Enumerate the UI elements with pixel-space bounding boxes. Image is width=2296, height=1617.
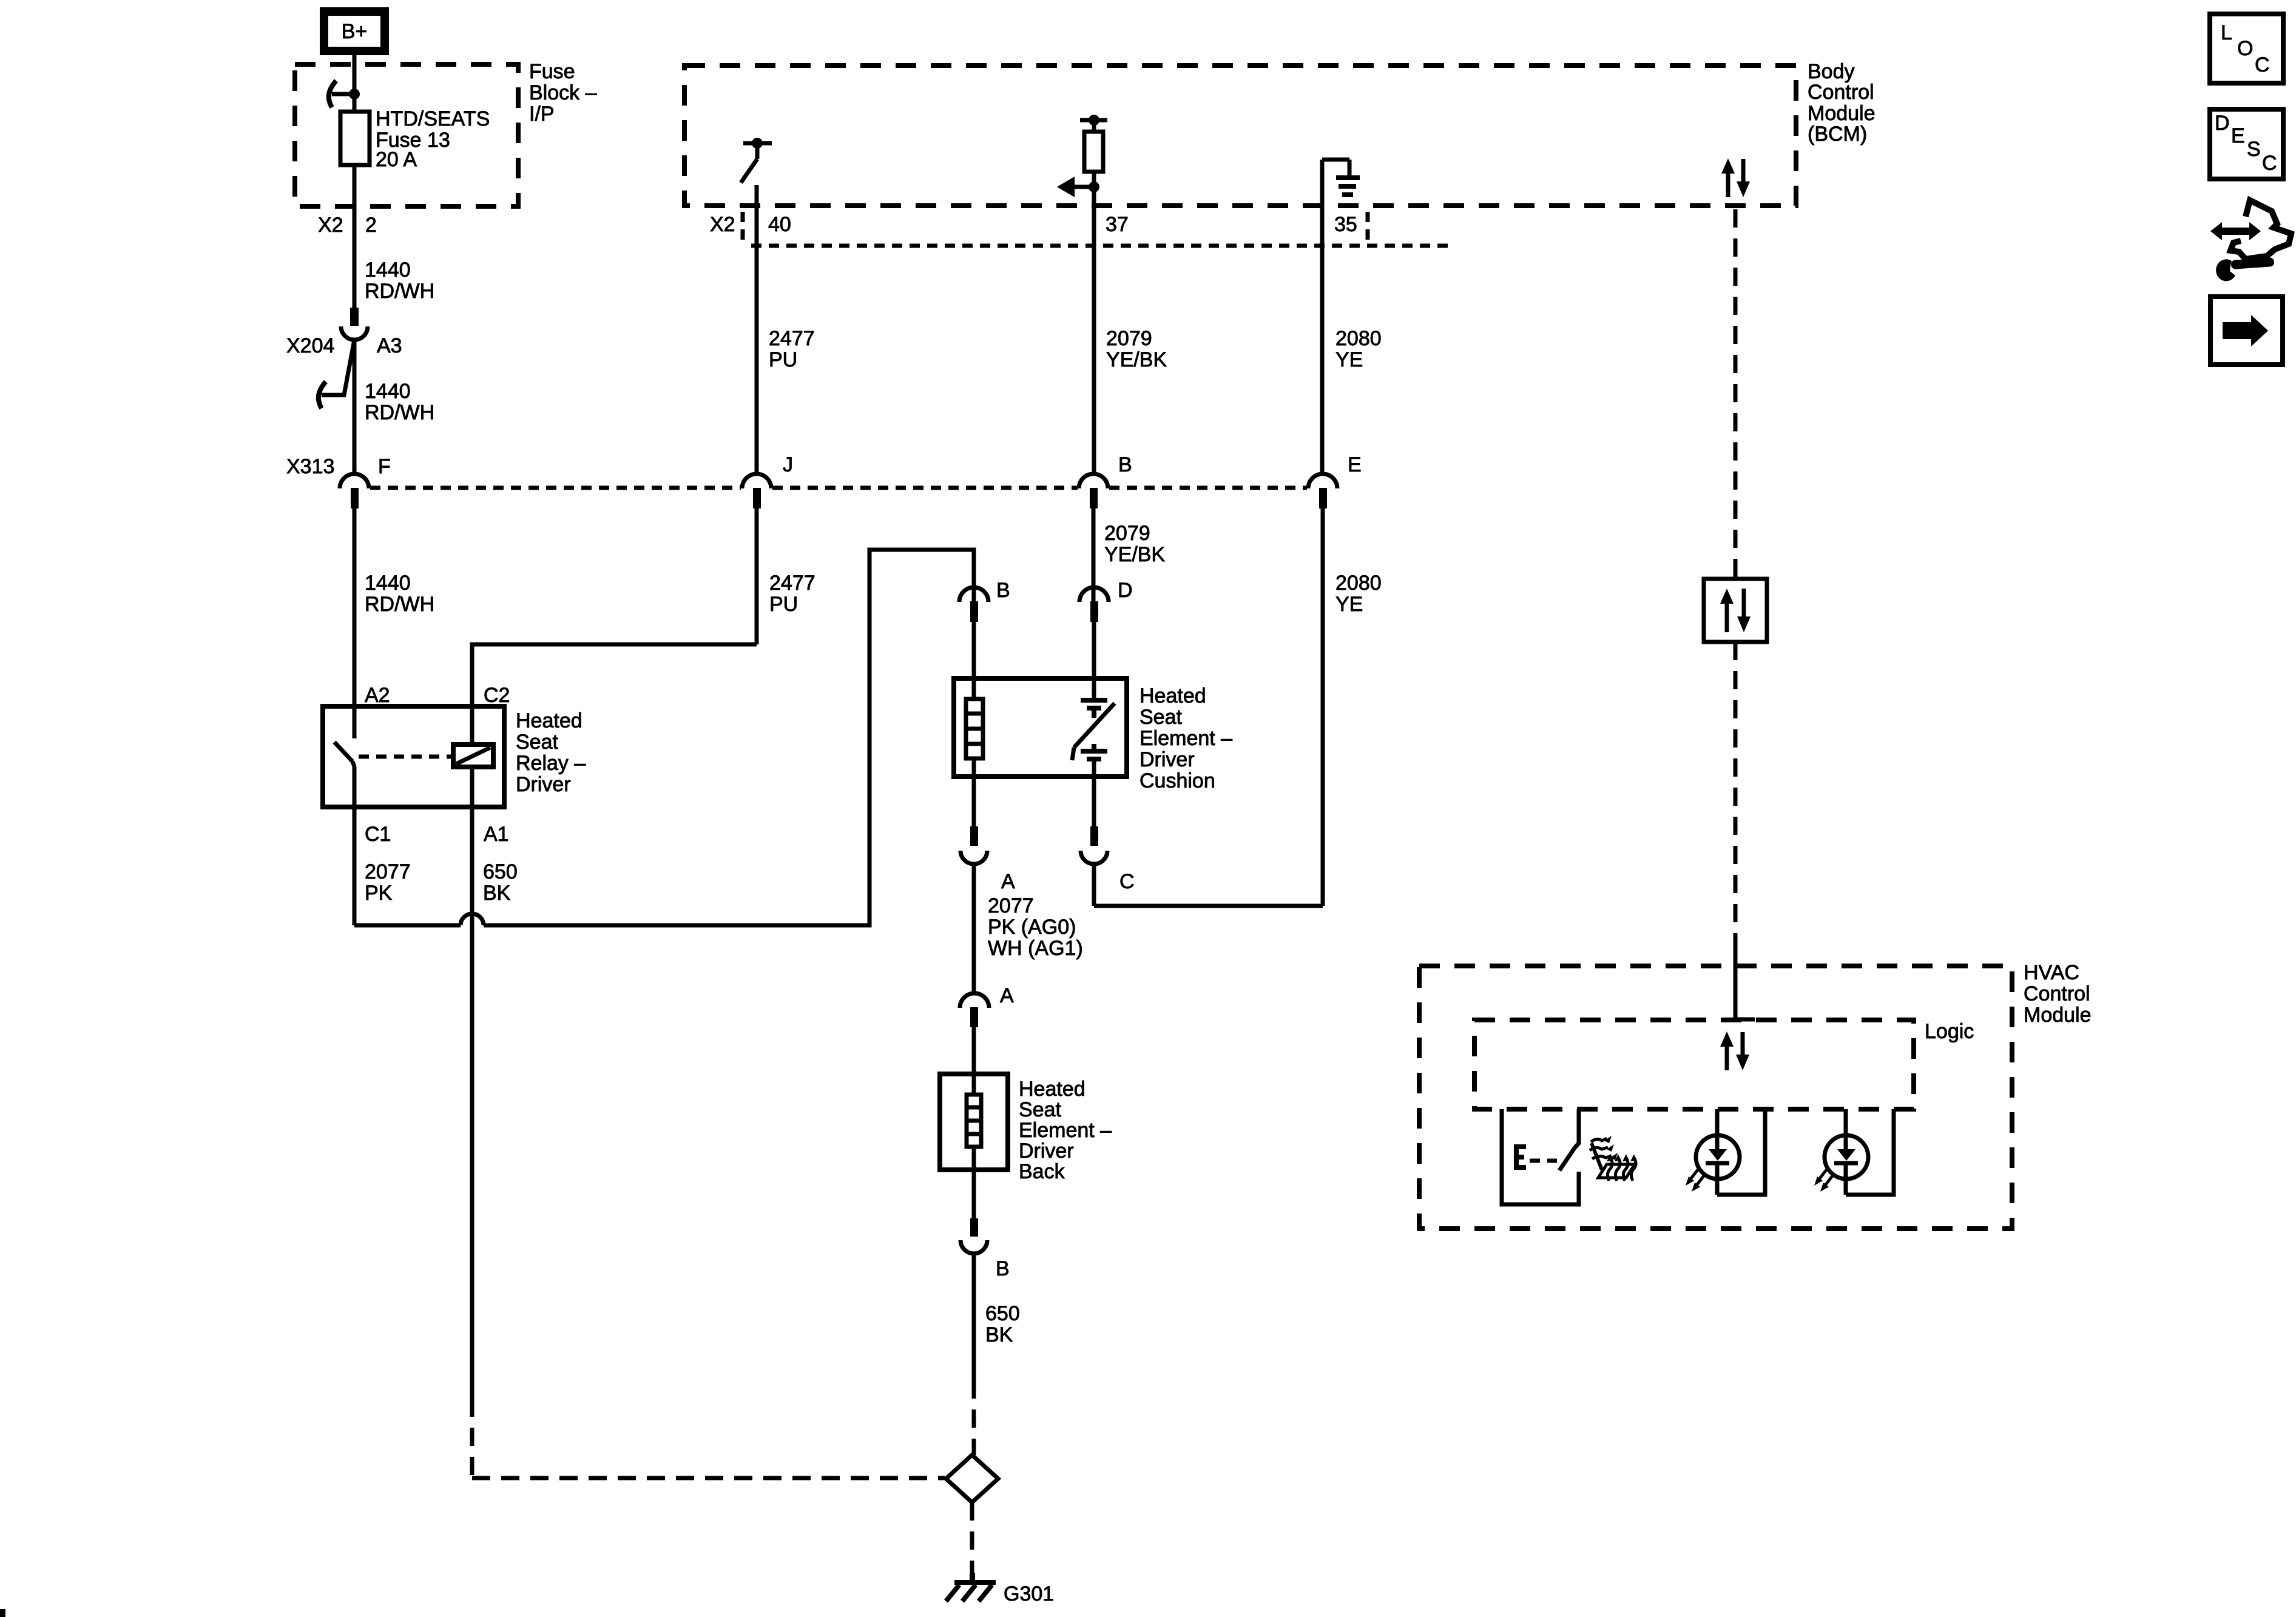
svg-text:C: C xyxy=(2255,53,2270,76)
svg-text:Element –: Element – xyxy=(1019,1119,1112,1142)
svg-text:2477: 2477 xyxy=(769,327,815,350)
svg-text:X313: X313 xyxy=(286,455,334,478)
wire label 2080 YE above X313 xyxy=(1335,327,1382,371)
connector X204 pin A3 xyxy=(319,308,368,474)
wire C to 2080 YE junction xyxy=(1094,904,1323,908)
wire label 2477 PU above X313 xyxy=(769,327,815,371)
BCM switch pin 40 xyxy=(741,138,772,474)
wire relay A1 down 650 BK xyxy=(470,807,474,1399)
connector inline pin A xyxy=(960,993,989,1095)
svg-text:A: A xyxy=(1000,984,1014,1007)
HVAC logic dashed box xyxy=(1474,1020,1914,1109)
svg-text:YE: YE xyxy=(1335,348,1363,371)
svg-text:Block –: Block – xyxy=(529,81,597,104)
wire label 2079 YE/BK below X313 xyxy=(1104,522,1165,566)
svg-text:X2: X2 xyxy=(318,214,343,237)
wire B+ to fuse block xyxy=(353,55,357,112)
svg-text:20 A: 20 A xyxy=(376,148,417,171)
svg-text:B+: B+ xyxy=(342,20,368,43)
BCM internal ground pin 35 xyxy=(1322,160,1360,474)
svg-text:RD/WH: RD/WH xyxy=(365,593,434,616)
relay Heated Seat Relay - Driver xyxy=(323,706,504,807)
svg-text:2080: 2080 xyxy=(1335,572,1382,595)
svg-text:HVAC: HVAC xyxy=(2024,961,2079,984)
svg-text:A: A xyxy=(1001,870,1015,893)
svg-text:B: B xyxy=(996,579,1010,602)
heated seat element driver back box xyxy=(940,1074,1008,1170)
svg-text:650: 650 xyxy=(985,1302,1020,1325)
heater element symbol back xyxy=(967,1095,981,1147)
svg-text:A3: A3 xyxy=(377,334,402,357)
svg-text:G301: G301 xyxy=(1004,1582,1054,1605)
svg-text:PU: PU xyxy=(769,348,797,371)
svg-text:Module: Module xyxy=(2024,1004,2092,1027)
label Fuse Block I/P xyxy=(529,60,597,126)
connector cushion pin C xyxy=(1081,826,1107,906)
battery feed B+ box xyxy=(324,12,385,51)
svg-text:2477: 2477 xyxy=(769,572,815,595)
nav icon diagnostic hand wrench xyxy=(2210,200,2291,281)
BCM resistor sensor pin 37 xyxy=(1057,115,1107,474)
wire label 2080 YE below X313 xyxy=(1335,572,1382,616)
svg-text:1440: 1440 xyxy=(365,258,411,282)
wire label 2477 PU below X313 xyxy=(769,572,815,616)
serial gateway box with arrows xyxy=(1704,579,1767,642)
heated seat element driver cushion box xyxy=(954,678,1127,777)
svg-text:Fuse: Fuse xyxy=(529,60,575,83)
svg-text:2079: 2079 xyxy=(1104,522,1150,545)
wire relay C1 down 2077 PK xyxy=(353,766,357,925)
svg-text:BK: BK xyxy=(483,882,511,905)
svg-text:A1: A1 xyxy=(484,823,509,846)
svg-text:BK: BK xyxy=(985,1323,1013,1346)
connector X313 pin E xyxy=(1308,474,1337,906)
wire 2477 PU bend to relay C2 xyxy=(472,644,757,744)
svg-text:YE/BK: YE/BK xyxy=(1106,348,1167,371)
nav icon LOC box xyxy=(2210,14,2283,83)
dashed wire from relay return to splice xyxy=(470,1399,474,1476)
svg-text:1440: 1440 xyxy=(365,380,411,403)
svg-text:Logic: Logic xyxy=(1925,1020,1974,1043)
svg-text:I/P: I/P xyxy=(529,103,555,126)
connector back pin B xyxy=(961,1218,987,1380)
connector element B pin xyxy=(959,587,988,699)
svg-text:2: 2 xyxy=(365,214,377,237)
svg-text:B: B xyxy=(996,1257,1010,1280)
svg-text:L: L xyxy=(2221,21,2232,44)
svg-text:Driver: Driver xyxy=(516,773,571,796)
svg-text:Relay –: Relay – xyxy=(516,752,586,775)
wire label 2079 YE/BK above X313 xyxy=(1106,327,1167,371)
svg-text:Seat: Seat xyxy=(1019,1098,1061,1121)
logic serial arrows xyxy=(1720,1031,1749,1070)
svg-text:RD/WH: RD/WH xyxy=(365,280,434,303)
heated seat switch E in HVAC xyxy=(1502,1109,1579,1204)
svg-text:RD/WH: RD/WH xyxy=(365,401,434,424)
svg-text:YE/BK: YE/BK xyxy=(1104,543,1165,566)
svg-text:X2: X2 xyxy=(710,213,735,236)
nav icon DESC box xyxy=(2210,109,2283,179)
LED indicator 2 xyxy=(1814,1109,1894,1195)
wire bottom return with hop to element B loop xyxy=(354,550,974,925)
svg-text:Module: Module xyxy=(1808,102,1876,125)
svg-text:(BCM): (BCM) xyxy=(1808,123,1867,146)
svg-text:2077: 2077 xyxy=(365,860,411,883)
svg-text:Control: Control xyxy=(2024,982,2090,1005)
wire label 650 BK xyxy=(985,1302,1020,1346)
wire label 2077 PK AG0 WH AG1 xyxy=(988,894,1083,960)
BCM dashed box xyxy=(684,66,1796,206)
svg-text:Cushion: Cushion xyxy=(1140,769,1215,792)
heater element symbol cushion xyxy=(966,699,983,758)
svg-text:Control: Control xyxy=(1808,81,1874,104)
svg-text:J: J xyxy=(783,453,793,476)
svg-text:S: S xyxy=(2247,138,2261,161)
BCM connector row dotted line xyxy=(751,244,1452,248)
wire fuse to X204 xyxy=(353,165,357,308)
bus tap splice in fuse block xyxy=(329,81,360,107)
svg-text:Back: Back xyxy=(1019,1160,1065,1183)
svg-text:2079: 2079 xyxy=(1106,327,1152,350)
svg-text:Driver: Driver xyxy=(1140,748,1195,771)
svg-text:Seat: Seat xyxy=(516,731,558,754)
heated seat indicator icon xyxy=(1590,1136,1636,1181)
fuse block I/P dashed box xyxy=(295,64,518,206)
LED indicator 1 xyxy=(1686,1109,1765,1195)
ground G301 xyxy=(946,1573,996,1601)
svg-text:WH (AG1): WH (AG1) xyxy=(988,937,1083,960)
wire back element down xyxy=(972,1147,976,1218)
connector X313 pin J xyxy=(742,474,771,644)
serial data dashed wire gateway to HVAC xyxy=(1734,642,1738,944)
page corner artifact mark xyxy=(0,1609,5,1617)
svg-text:C: C xyxy=(1119,870,1135,893)
svg-text:2077: 2077 xyxy=(988,894,1034,917)
svg-text:B: B xyxy=(1118,453,1132,476)
svg-text:YE: YE xyxy=(1335,593,1363,616)
svg-text:Heated: Heated xyxy=(1140,684,1206,707)
svg-text:E: E xyxy=(1348,453,1362,476)
svg-text:HTD/SEATS: HTD/SEATS xyxy=(376,107,490,130)
svg-text:Element –: Element – xyxy=(1140,727,1232,750)
wire label 1440 RD/WH xyxy=(365,380,434,424)
svg-text:C1: C1 xyxy=(365,823,391,846)
svg-text:E: E xyxy=(2231,124,2245,147)
dashed wire splice to G301 xyxy=(970,1502,974,1578)
svg-text:Driver: Driver xyxy=(1019,1139,1074,1163)
svg-text:Body: Body xyxy=(1808,60,1855,83)
splice diamond xyxy=(946,1455,998,1502)
connector X313 pin B xyxy=(1079,474,1108,601)
BCM serial data arrows xyxy=(1721,158,1750,197)
svg-text:C: C xyxy=(2262,152,2277,175)
svg-text:37: 37 xyxy=(1106,213,1129,236)
wire label 1440 RD/WH below X313 xyxy=(365,572,434,616)
dashed ground wire to splice xyxy=(972,1380,976,1455)
fuse HTD/SEATS Fuse 13 20A xyxy=(340,112,370,165)
connector X313 pin F xyxy=(340,474,369,738)
svg-text:O: O xyxy=(2237,37,2253,60)
wire label 1440 RD/WH xyxy=(365,258,434,303)
nav icon next arrow box xyxy=(2210,297,2283,365)
svg-text:PK: PK xyxy=(365,882,393,905)
svg-text:A2: A2 xyxy=(365,684,390,707)
serial data dashed wire BCM to gateway box xyxy=(1734,209,1738,579)
svg-text:PK (AG0): PK (AG0) xyxy=(988,916,1076,939)
connector element D pin xyxy=(1079,587,1109,698)
svg-text:F: F xyxy=(378,455,391,478)
connector cushion pin A xyxy=(961,826,987,993)
svg-text:40: 40 xyxy=(768,213,791,236)
svg-text:Heated: Heated xyxy=(1019,1078,1086,1101)
HVAC control module dashed box xyxy=(1419,966,2012,1229)
svg-text:D: D xyxy=(1118,579,1133,602)
svg-text:PU: PU xyxy=(769,593,798,616)
svg-text:D: D xyxy=(2215,112,2230,135)
svg-text:2080: 2080 xyxy=(1335,327,1382,350)
connector X313 row dashed line xyxy=(370,486,1307,490)
svg-text:C2: C2 xyxy=(484,684,510,707)
svg-text:Seat: Seat xyxy=(1140,706,1182,729)
svg-text:35: 35 xyxy=(1334,213,1357,236)
svg-text:X204: X204 xyxy=(286,334,334,357)
svg-text:650: 650 xyxy=(483,860,518,883)
svg-text:Heated: Heated xyxy=(516,709,582,732)
thermal limit switch cushion xyxy=(1072,698,1115,826)
svg-text:1440: 1440 xyxy=(365,572,411,595)
wire element bottom A xyxy=(972,758,976,826)
